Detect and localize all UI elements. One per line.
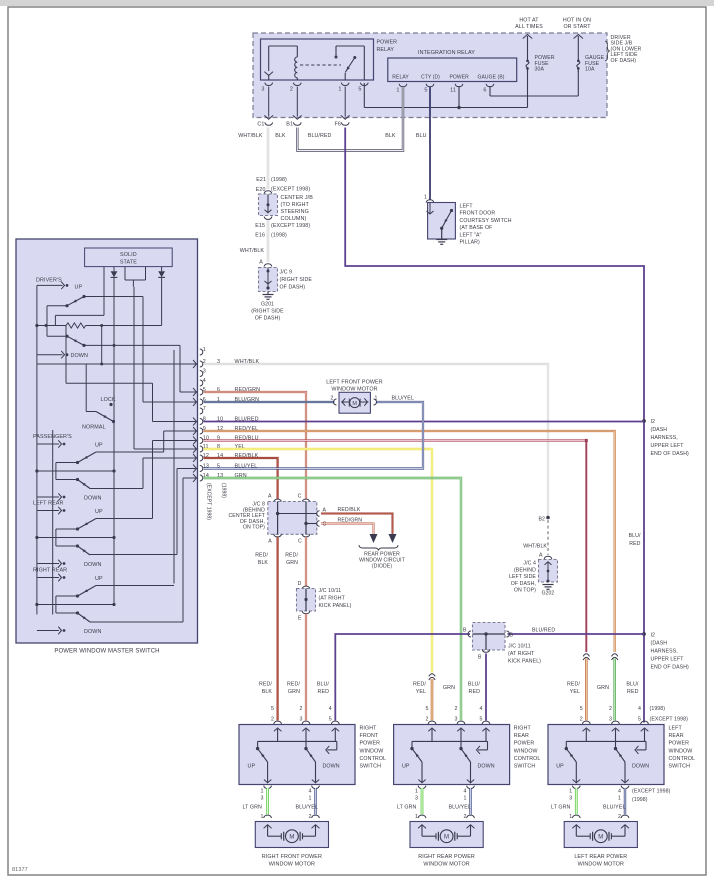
wire RED/GRN to right front switch xyxy=(305,614,307,721)
svg-text:YEL: YEL xyxy=(570,689,580,695)
svg-text:7: 7 xyxy=(203,406,206,412)
brace + diode label xyxy=(359,545,398,551)
svg-text:WINDOW: WINDOW xyxy=(360,748,384,754)
svg-text:(EXCEPT 1998): (EXCEPT 1998) xyxy=(271,223,310,229)
svg-text:1: 1 xyxy=(415,814,418,820)
relay pin wires to border xyxy=(268,87,270,117)
right front power window motor motor xyxy=(255,822,328,848)
svg-text:BLU: BLU xyxy=(416,133,427,139)
power fuse 30A xyxy=(527,56,529,61)
svg-text:RIGHT REAR POWER: RIGHT REAR POWER xyxy=(418,854,475,860)
svg-text:UP: UP xyxy=(95,509,103,515)
svg-text:LEFT FRONT POWER: LEFT FRONT POWER xyxy=(326,380,383,386)
ground G201 xyxy=(267,292,269,295)
svg-text:REAR: REAR xyxy=(669,733,684,739)
svg-text:B: B xyxy=(510,633,514,639)
wire BLU/RED row8 to I2 xyxy=(204,421,645,423)
svg-text:(EXCEPT 1998): (EXCEPT 1998) xyxy=(206,483,212,520)
svg-text:2: 2 xyxy=(425,716,428,722)
svg-text:RED/: RED/ xyxy=(287,682,300,688)
svg-text:WINDOW: WINDOW xyxy=(669,748,693,754)
svg-text:BLU/: BLU/ xyxy=(626,682,639,688)
svg-text:(1998): (1998) xyxy=(271,177,287,183)
svg-text:5: 5 xyxy=(329,716,332,722)
J/C 10/11 (B) xyxy=(473,623,506,651)
wire RED/GRN row5 to J/C8 C xyxy=(204,392,307,500)
wire RED/BLK down to right front switch xyxy=(277,537,279,721)
svg-text:M: M xyxy=(444,835,449,841)
svg-text:E: E xyxy=(298,616,302,622)
svg-text:(DASH: (DASH xyxy=(651,427,668,433)
svg-text:10A: 10A xyxy=(585,67,595,73)
svg-text:C: C xyxy=(298,494,302,500)
svg-text:1: 1 xyxy=(569,789,572,795)
solid state box xyxy=(85,248,173,267)
svg-text:WINDOW MOTOR: WINDOW MOTOR xyxy=(331,387,377,393)
svg-text:BLU/RED: BLU/RED xyxy=(308,133,332,139)
svg-text:WINDOW MOTOR: WINDOW MOTOR xyxy=(269,862,315,868)
svg-text:(DASH: (DASH xyxy=(651,641,668,647)
wire RED/GRN down via J/C10/11 xyxy=(305,537,307,586)
svg-text:RED: RED xyxy=(469,689,481,695)
svg-text:A: A xyxy=(268,539,272,545)
svg-text:3: 3 xyxy=(569,796,572,802)
svg-text:BLU/YEL: BLU/YEL xyxy=(392,396,415,402)
driver down switch xyxy=(67,336,84,345)
svg-text:5: 5 xyxy=(358,87,361,93)
wire RED/BLK row12 to J/C8 A xyxy=(204,458,278,500)
svg-text:DRIVER'S: DRIVER'S xyxy=(36,277,62,283)
svg-text:4: 4 xyxy=(203,378,206,384)
svg-text:RED/: RED/ xyxy=(259,682,272,688)
svg-text:WHT/BLK: WHT/BLK xyxy=(238,133,263,139)
svg-text:DOWN: DOWN xyxy=(323,764,340,770)
svg-text:B2: B2 xyxy=(538,517,545,523)
wire BLU/YEL xyxy=(624,788,626,815)
integration relay xyxy=(388,58,517,82)
svg-text:M: M xyxy=(598,835,603,841)
svg-text:4: 4 xyxy=(308,789,311,795)
svg-text:LEFT: LEFT xyxy=(669,726,683,732)
svg-text:HARNESS,: HARNESS, xyxy=(651,435,678,441)
driver down label xyxy=(37,354,63,356)
svg-text:(1998): (1998) xyxy=(650,706,666,712)
svg-text:RED: RED xyxy=(629,541,640,547)
svg-text:HARNESS,: HARNESS, xyxy=(651,649,678,655)
svg-text:(AT RIGHT: (AT RIGHT xyxy=(319,596,346,602)
svg-text:UP: UP xyxy=(75,285,83,291)
svg-text:1: 1 xyxy=(424,195,427,201)
node I2 upper xyxy=(642,419,646,423)
wire LT GRN xyxy=(421,788,424,815)
wire LT GRN xyxy=(575,788,578,815)
svg-text:1: 1 xyxy=(618,796,621,802)
wire RED/YEL into right rear switch xyxy=(431,679,434,721)
svg-text:M: M xyxy=(289,835,294,841)
svg-text:BLU/YEL: BLU/YEL xyxy=(449,805,472,811)
svg-text:WINDOW: WINDOW xyxy=(514,748,538,754)
svg-text:(1998): (1998) xyxy=(632,797,648,803)
svg-text:COLUMN): COLUMN) xyxy=(281,216,307,222)
svg-text:5: 5 xyxy=(271,706,274,712)
svg-text:OF DASH): OF DASH) xyxy=(255,316,281,322)
node B2 xyxy=(546,516,550,520)
svg-text:G201: G201 xyxy=(261,302,274,308)
svg-text:2: 2 xyxy=(308,814,311,820)
svg-text:RIGHT: RIGHT xyxy=(514,726,532,732)
svg-text:2: 2 xyxy=(271,716,274,722)
svg-text:J/C 10/11: J/C 10/11 xyxy=(508,644,531,650)
driver up switch xyxy=(82,295,85,298)
svg-text:3: 3 xyxy=(203,368,206,374)
svg-text:UP: UP xyxy=(556,764,564,770)
wire WHT/BLK to J/C 9 xyxy=(267,220,269,262)
svg-text:(RIGHT SIDE: (RIGHT SIDE xyxy=(280,277,313,283)
svg-text:M: M xyxy=(352,401,357,407)
svg-text:2: 2 xyxy=(463,814,466,820)
svg-text:J/C 4: J/C 4 xyxy=(523,561,536,567)
wire BLU/RED down to right rear switch xyxy=(485,654,487,721)
svg-text:3: 3 xyxy=(261,87,264,93)
wire BLU/RED left branch to right front switch xyxy=(335,634,470,721)
svg-text:A: A xyxy=(268,494,272,500)
svg-text:REAR: REAR xyxy=(514,733,529,739)
svg-text:I2: I2 xyxy=(651,419,656,425)
svg-text:E21: E21 xyxy=(256,177,266,183)
svg-text:1: 1 xyxy=(261,814,264,820)
svg-text:LT GRN: LT GRN xyxy=(242,805,262,811)
svg-text:3: 3 xyxy=(454,716,457,722)
svg-text:5: 5 xyxy=(580,706,583,712)
svg-text:1: 1 xyxy=(463,796,466,802)
svg-text:1: 1 xyxy=(338,87,341,93)
svg-text:WINDOW MOTOR: WINDOW MOTOR xyxy=(423,862,469,868)
svg-text:UP: UP xyxy=(402,764,410,770)
svg-text:NORMAL: NORMAL xyxy=(82,425,106,431)
svg-text:SOLID: SOLID xyxy=(120,252,137,258)
svg-text:LT GRN: LT GRN xyxy=(397,805,417,811)
svg-text:BLK: BLK xyxy=(262,689,273,695)
svg-text:GRN: GRN xyxy=(288,689,300,695)
wire WHT/BLK row2 to B2 riser xyxy=(204,364,549,516)
svg-text:CONTROL: CONTROL xyxy=(360,756,387,762)
svg-text:PILLAR): PILLAR) xyxy=(460,240,480,246)
svg-text:RED/GRN: RED/GRN xyxy=(338,517,363,523)
svg-text:UP: UP xyxy=(95,576,103,582)
svg-text:3: 3 xyxy=(415,796,418,802)
ground G202 xyxy=(543,584,554,586)
diode D1 xyxy=(113,267,115,272)
wire WHT/BLK C1 down xyxy=(267,128,269,190)
svg-text:1: 1 xyxy=(308,796,311,802)
svg-text:C: C xyxy=(298,539,302,545)
svg-text:RED/BLK: RED/BLK xyxy=(338,507,361,513)
svg-text:WINDOW MOTOR: WINDOW MOTOR xyxy=(578,862,624,868)
wire BLU/YEL row13 from motor pin 1 xyxy=(204,402,424,469)
svg-text:RED/: RED/ xyxy=(285,553,298,559)
svg-text:B: B xyxy=(478,655,482,661)
svg-text:SWITCH: SWITCH xyxy=(669,764,691,770)
chevron on YEL xyxy=(429,674,435,677)
svg-text:G202: G202 xyxy=(542,591,555,597)
diode D2 xyxy=(161,267,163,272)
svg-text:(TO RIGHT: (TO RIGHT xyxy=(281,202,310,208)
svg-text:SWITCH: SWITCH xyxy=(514,764,536,770)
svg-text:POWER: POWER xyxy=(514,741,535,747)
svg-text:GAUGE (B): GAUGE (B) xyxy=(478,75,505,81)
pin feed wires xyxy=(114,344,180,346)
node I2 lower xyxy=(642,632,646,636)
svg-text:RED/: RED/ xyxy=(413,682,426,688)
svg-text:RELAY: RELAY xyxy=(392,75,409,81)
svg-text:5: 5 xyxy=(424,88,427,94)
rear power window circuit wires xyxy=(321,514,393,535)
driver misc wiring xyxy=(54,315,56,325)
svg-text:BLU/: BLU/ xyxy=(629,533,641,539)
svg-text:1: 1 xyxy=(203,347,206,353)
svg-text:OF DASH): OF DASH) xyxy=(611,58,637,64)
svg-text:E16: E16 xyxy=(255,233,265,239)
svg-text:RIGHT FRONT POWER: RIGHT FRONT POWER xyxy=(262,854,322,860)
svg-text:2: 2 xyxy=(290,87,293,93)
svg-text:(AT RIGHT: (AT RIGHT xyxy=(508,651,535,657)
wire BLU/RED trunk F6 to right side xyxy=(345,128,644,723)
svg-text:HOT AT: HOT AT xyxy=(519,18,539,24)
wire BLU CTY to courtesy switch xyxy=(429,87,431,200)
svg-text:F6: F6 xyxy=(335,122,342,128)
svg-text:A: A xyxy=(259,260,263,266)
svg-text:(EXCEPT 1998): (EXCEPT 1998) xyxy=(650,716,689,722)
power relay xyxy=(261,39,374,80)
driver side J/B block xyxy=(253,33,607,118)
svg-text:(AT BASE OF: (AT BASE OF xyxy=(460,225,493,231)
svg-text:(1998): (1998) xyxy=(221,483,227,498)
svg-text:3: 3 xyxy=(609,716,612,722)
svg-text:RIGHT REAR: RIGHT REAR xyxy=(33,567,67,573)
svg-text:OR START: OR START xyxy=(563,24,591,30)
svg-text:3: 3 xyxy=(299,716,302,722)
center J/B box xyxy=(259,194,278,216)
svg-text:UPPER LEFT: UPPER LEFT xyxy=(651,657,685,663)
solid state feed wires xyxy=(103,267,105,316)
wire BLK B1 to relay pin1 xyxy=(297,87,403,151)
svg-text:2: 2 xyxy=(580,716,583,722)
svg-text:81377: 81377 xyxy=(12,867,28,873)
connectors below J/B xyxy=(269,116,273,120)
svg-text:(BEHIND: (BEHIND xyxy=(514,567,536,573)
left bus xyxy=(36,285,38,614)
svg-text:4: 4 xyxy=(463,789,466,795)
svg-text:GRN: GRN xyxy=(286,560,298,566)
svg-text:2: 2 xyxy=(331,395,334,401)
svg-text:ON TOP): ON TOP) xyxy=(243,525,265,531)
svg-text:GRN: GRN xyxy=(597,685,609,691)
svg-text:E20: E20 xyxy=(256,187,266,193)
svg-text:LEFT REAR: LEFT REAR xyxy=(33,500,63,506)
svg-text:BLK: BLK xyxy=(258,560,269,566)
svg-text:WHT/BLK: WHT/BLK xyxy=(240,248,265,254)
svg-text:UP: UP xyxy=(248,764,256,770)
svg-text:DOWN: DOWN xyxy=(71,353,88,359)
svg-text:(DIODE): (DIODE) xyxy=(372,564,392,570)
svg-text:5: 5 xyxy=(479,716,482,722)
resistor xyxy=(37,325,66,327)
svg-text:RELAY: RELAY xyxy=(377,47,395,53)
left rear power window motor motor xyxy=(564,822,637,848)
svg-text:B: B xyxy=(463,628,467,634)
svg-text:UP: UP xyxy=(95,443,103,449)
svg-text:I2: I2 xyxy=(651,633,656,639)
wire BLU/GRN row6 to motor pin 2 xyxy=(204,401,335,403)
svg-text:(1998): (1998) xyxy=(271,233,287,239)
wire YEL row11 down to chevron xyxy=(204,449,433,673)
svg-text:BLU/: BLU/ xyxy=(317,682,330,688)
chevron left rear RED/YEL feed xyxy=(583,654,589,657)
wire LT GRN xyxy=(266,788,269,815)
svg-text:CONTROL: CONTROL xyxy=(669,756,696,762)
svg-text:ALL TIMES: ALL TIMES xyxy=(515,24,543,30)
svg-text:BLK: BLK xyxy=(275,133,286,139)
svg-text:E15: E15 xyxy=(255,223,265,229)
svg-text:POWER: POWER xyxy=(669,741,690,747)
dashed wire to J/C4 xyxy=(547,520,549,555)
svg-text:5: 5 xyxy=(425,706,428,712)
master switch pin row glyphs xyxy=(200,349,203,355)
svg-text:2: 2 xyxy=(454,706,457,712)
svg-text:C1: C1 xyxy=(257,122,264,128)
wire GRN row14 down to right rear switch xyxy=(204,478,462,721)
svg-text:RED: RED xyxy=(627,689,639,695)
connector E15/E16 xyxy=(264,217,272,220)
svg-text:4: 4 xyxy=(329,706,332,712)
svg-text:STEERING: STEERING xyxy=(281,209,309,215)
svg-text:STATE: STATE xyxy=(120,259,137,265)
svg-text:FRONT DOOR: FRONT DOOR xyxy=(460,211,496,217)
svg-text:PASSENGER'S: PASSENGER'S xyxy=(33,434,72,440)
svg-text:6: 6 xyxy=(483,88,486,94)
svg-text:LEFT REAR POWER: LEFT REAR POWER xyxy=(574,854,627,860)
svg-text:1: 1 xyxy=(569,814,572,820)
wire BLU/YEL xyxy=(469,788,471,815)
svg-text:1: 1 xyxy=(261,789,264,795)
svg-text:RED/: RED/ xyxy=(567,682,580,688)
driver bracket xyxy=(47,305,67,307)
svg-text:RED/: RED/ xyxy=(255,553,268,559)
svg-text:GRN: GRN xyxy=(443,685,455,691)
svg-text:4: 4 xyxy=(638,706,641,712)
wire GRN into left rear switch xyxy=(613,659,616,721)
svg-text:FRONT: FRONT xyxy=(360,733,379,739)
svg-text:30A: 30A xyxy=(535,67,545,73)
svg-text:J/C 9: J/C 9 xyxy=(280,270,293,276)
svg-text:B1: B1 xyxy=(286,122,293,128)
svg-text:DOWN: DOWN xyxy=(84,496,101,502)
wire BLU/RED right branch xyxy=(508,633,645,635)
svg-text:4: 4 xyxy=(479,706,482,712)
svg-text:1: 1 xyxy=(415,789,418,795)
svg-text:POWER: POWER xyxy=(360,741,381,747)
svg-text:5: 5 xyxy=(638,716,641,722)
svg-text:11: 11 xyxy=(450,88,456,94)
svg-text:HOT IN ON: HOT IN ON xyxy=(563,18,591,24)
svg-text:D: D xyxy=(298,581,302,587)
svg-text:SWITCH: SWITCH xyxy=(360,764,382,770)
wire BLU/YEL xyxy=(314,788,316,815)
svg-text:KICK PANEL): KICK PANEL) xyxy=(508,659,541,665)
svg-text:LEFT "A": LEFT "A" xyxy=(460,232,482,238)
svg-text:POWER WINDOW MASTER SWITCH: POWER WINDOW MASTER SWITCH xyxy=(54,649,159,655)
wire RED/YEL into left rear switch xyxy=(585,659,588,721)
svg-text:1: 1 xyxy=(396,88,399,94)
svg-text:2: 2 xyxy=(609,706,612,712)
svg-text:3: 3 xyxy=(261,796,264,802)
svg-text:BLU/: BLU/ xyxy=(468,682,481,688)
svg-text:OF DASH,: OF DASH, xyxy=(511,581,536,587)
wire RED/BLU row10 down right xyxy=(204,439,586,441)
J/B internal wiring xyxy=(363,83,365,108)
svg-text:INTEGRATION RELAY: INTEGRATION RELAY xyxy=(418,50,475,56)
svg-text:DOWN: DOWN xyxy=(478,764,495,770)
svg-text:(EXCEPT 1998): (EXCEPT 1998) xyxy=(632,789,671,795)
svg-text:A: A xyxy=(539,553,543,559)
svg-text:2: 2 xyxy=(618,814,621,820)
svg-text:LT GRN: LT GRN xyxy=(551,805,571,811)
svg-text:RED: RED xyxy=(318,689,330,695)
svg-text:COURTESY SWITCH: COURTESY SWITCH xyxy=(460,218,512,224)
svg-text:END OF DASH): END OF DASH) xyxy=(651,451,690,457)
wire RED/YEL row9 down right xyxy=(204,431,615,652)
svg-text:POWER: POWER xyxy=(377,40,398,46)
svg-text:4: 4 xyxy=(618,789,621,795)
svg-text:DOWN: DOWN xyxy=(84,562,101,568)
power window master switch box xyxy=(16,239,198,643)
svg-text:WHT/BLK: WHT/BLK xyxy=(523,544,547,550)
svg-text:DOWN: DOWN xyxy=(632,764,649,770)
svg-text:UPPER LEFT: UPPER LEFT xyxy=(651,443,685,449)
svg-text:CTY (D): CTY (D) xyxy=(421,75,440,81)
svg-text:CONTROL: CONTROL xyxy=(514,756,541,762)
svg-text:BLU/RED: BLU/RED xyxy=(532,628,555,634)
svg-text:KICK PANEL): KICK PANEL) xyxy=(319,603,352,609)
svg-text:LEFT: LEFT xyxy=(460,204,474,210)
svg-text:LOCK: LOCK xyxy=(101,397,116,403)
svg-text:(EXCEPT 1998): (EXCEPT 1998) xyxy=(271,187,310,193)
svg-text:(RIGHT SIDE: (RIGHT SIDE xyxy=(251,309,284,315)
svg-text:YEL: YEL xyxy=(416,689,426,695)
svg-text:BLK: BLK xyxy=(385,133,396,139)
gauge fuse 10A xyxy=(577,56,579,61)
svg-text:2: 2 xyxy=(299,706,302,712)
svg-text:J/C 10/11: J/C 10/11 xyxy=(319,588,342,594)
svg-text:DOWN: DOWN xyxy=(84,629,101,635)
chevron left rear GRN feed xyxy=(612,654,618,657)
svg-text:OF DASH): OF DASH) xyxy=(280,285,306,291)
svg-text:LEFT SIDE: LEFT SIDE xyxy=(509,574,536,580)
svg-text:RIGHT: RIGHT xyxy=(360,726,378,732)
right rear power window motor motor xyxy=(410,822,483,848)
svg-text:CENTER J/B: CENTER J/B xyxy=(281,195,314,201)
svg-text:ON TOP): ON TOP) xyxy=(514,588,536,594)
svg-text:END OF DASH): END OF DASH) xyxy=(651,665,690,671)
svg-text:POWER: POWER xyxy=(450,75,470,81)
svg-text:BLU/YEL: BLU/YEL xyxy=(296,805,319,811)
svg-text:BLU/YEL: BLU/YEL xyxy=(603,805,626,811)
